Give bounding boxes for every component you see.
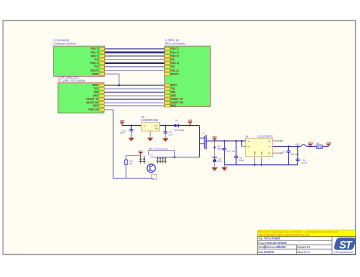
svg-text:+5V: +5V [188, 119, 193, 122]
svg-text:P36: P36 [95, 66, 100, 69]
svg-text:BOOT0: BOOT0 [91, 69, 100, 72]
svg-text:GND: GND [255, 151, 257, 156]
svg-text:Vout: Vout [154, 124, 158, 127]
svg-text:Vo: Vo [268, 146, 270, 148]
svg-text:JP6: JP6 [316, 143, 319, 145]
svg-text:STS2301: STS2301 [150, 157, 158, 159]
svg-text:P2[0..7]: P2[0..7] [91, 55, 99, 58]
svg-text:Title:: Title: [258, 238, 263, 241]
svg-text:SB2 close: SB2 close [291, 154, 301, 156]
svg-text:P36: P36 [170, 66, 175, 69]
svg-text:BOOT0: BOOT0 [170, 73, 179, 76]
svg-text:1uF: 1uF [168, 135, 172, 137]
svg-text:LD39050PU33R: LD39050PU33R [141, 120, 158, 122]
svg-text:Project:: Project: [258, 242, 266, 245]
svg-text:RED: RED [218, 161, 223, 163]
svg-text:P0[0..7]: P0[0..7] [170, 48, 178, 51]
svg-text:ST_LINK_V2-1.SchDoc: ST_LINK_V2-1.SchDoc [58, 79, 86, 83]
svg-text:PH[0..1]: PH[0..1] [170, 62, 179, 65]
svg-text:LD1117S50TR: LD1117S50TR [258, 136, 273, 138]
svg-text:GND: GND [261, 151, 263, 156]
svg-text:+3V3: +3V3 [326, 143, 332, 145]
svg-text:Vin: Vin [143, 125, 146, 127]
svg-text:MCU_uk.SchDoc: MCU_uk.SchDoc [165, 41, 186, 45]
svg-text:P5[1..5]: P5[1..5] [170, 69, 178, 72]
svg-text:100nF: 100nF [239, 160, 245, 162]
svg-text:NRST: NRST [92, 73, 99, 76]
svg-text:PH[0..1]: PH[0..1] [90, 62, 99, 65]
svg-text:12/3/2013: 12/3/2013 [264, 252, 275, 254]
svg-text:TOP & POWER: TOP & POWER [264, 239, 281, 241]
svg-text:MB1136: MB1136 [277, 247, 286, 249]
svg-text:P0[0..7]: P0[0..7] [91, 48, 99, 51]
svg-text:Byp: Byp [155, 128, 158, 130]
svg-text:life.augmented: life.augmented [335, 251, 354, 254]
svg-text:Note: Text in italic placed on: Note: Text in italic placed on a wire me… [258, 231, 338, 234]
svg-text:P30: P30 [95, 59, 100, 62]
svg-text:C23_1uF: C23_1uF [227, 151, 236, 153]
svg-text:VIN: VIN [120, 119, 125, 123]
svg-text:Revision:: Revision: [297, 247, 307, 249]
svg-text:MCO: MCO [170, 105, 176, 108]
svg-text:MCO: MCO [93, 105, 99, 108]
svg-text:PWR_EN: PWR_EN [88, 109, 98, 112]
svg-text:Connector.SchDoc: Connector.SchDoc [54, 41, 77, 45]
svg-text:10uF: 10uF [120, 133, 126, 135]
svg-text:P1[0..7]: P1[0..7] [170, 51, 178, 54]
svg-text:P30: P30 [170, 59, 175, 62]
svg-text:+3V3: +3V3 [307, 143, 313, 145]
svg-text:Vin: Vin [247, 141, 250, 143]
svg-text:helps to identify easily tx/rx: helps to identify easily tx/rx signal re… [258, 233, 310, 236]
svg-text:STPS2L30A: STPS2L30A [174, 129, 185, 132]
svg-text:P2[0..7]: P2[0..7] [170, 55, 178, 58]
svg-text:100nF: 100nF [301, 162, 307, 164]
svg-text:NUCLEO-XXXXRB: NUCLEO-XXXXRB [267, 243, 287, 245]
svg-text:E5V: E5V [139, 151, 144, 153]
svg-text:P1[0..7]: P1[0..7] [91, 51, 99, 54]
svg-text:U5V: U5V [212, 137, 217, 139]
svg-text:SB1 <= Default open: SB1 <= Default open [149, 148, 169, 151]
